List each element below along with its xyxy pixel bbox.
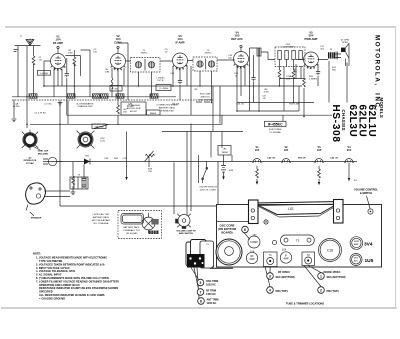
svg-text:10-365: 10-365 <box>13 106 21 108</box>
svg-text:CONNECTED WHEN: CONNECTED WHEN <box>156 105 178 107</box>
svg-text:L-28560: L-28560 <box>40 73 49 75</box>
svg-text:7: 7 <box>200 290 202 294</box>
svg-text:PRI (TOP): PRI (TOP) <box>327 289 339 293</box>
svg-text:B- DESIGNATES: B- DESIGNATES <box>77 103 94 106</box>
svg-text:4.7M: 4.7M <box>264 92 269 94</box>
svg-text:R16 1K: R16 1K <box>298 158 306 160</box>
svg-text:ALL RESISTORS INDICATED IN OHM: ALL RESISTORS INDICATED IN OHMS K=1000 O… <box>39 293 105 297</box>
svg-text:AVC: AVC <box>354 259 359 262</box>
svg-text:C16 .05: C16 .05 <box>236 104 244 106</box>
svg-text:= CHASSIS GROUND: = CHASSIS GROUND <box>39 296 65 300</box>
svg-text:600 KC: 600 KC <box>130 111 138 113</box>
svg-text:C2 PADDER: C2 PADDER <box>127 104 140 107</box>
svg-text:5: 5 <box>200 281 202 285</box>
svg-text:R13 C30B: R13 C30B <box>200 94 211 96</box>
svg-text:INTERLOCK: INTERLOCK <box>24 160 37 162</box>
svg-text:LS1: LS1 <box>288 207 294 211</box>
svg-text:SPKR: SPKR <box>342 42 348 44</box>
svg-text:TUBE & TRIMMER LOCATIONS: TUBE & TRIMMER LOCATIONS <box>286 302 325 306</box>
svg-text:8: 8 <box>200 299 202 303</box>
svg-text:ON-OFF SWITCH: ON-OFF SWITCH <box>199 186 217 188</box>
svg-text:MODELS: MODELS <box>379 98 384 119</box>
svg-text:L2 OSC: L2 OSC <box>44 104 52 106</box>
svg-text:AC: AC <box>28 156 32 159</box>
svg-text:OPERATION AND LOWER ON AC: OPERATION AND LOWER ON AC <box>39 283 80 287</box>
svg-text:3: 3 <box>269 274 271 278</box>
svg-text:3.3M: 3.3M <box>68 53 73 55</box>
svg-text:FOR TUNED: FOR TUNED <box>269 129 282 131</box>
svg-text:C18: C18 <box>327 248 333 252</box>
svg-text:COUPLATE: COUPLATE <box>282 46 294 49</box>
svg-text:BATTERY PACK: BATTERY PACK <box>159 107 176 110</box>
svg-text:4. VOLTAGE TOLERANCE ±20%: 4. VOLTAGE TOLERANCE ±20% <box>36 269 76 273</box>
svg-text:2SA704B: 2SA704B <box>94 126 104 129</box>
svg-text:C2 4.7K R4: C2 4.7K R4 <box>34 113 46 115</box>
svg-text:CHASSIS GND: CHASSIS GND <box>77 105 92 108</box>
svg-text:HS-308: HS-308 <box>330 105 341 143</box>
svg-text:& SWITCH: & SWITCH <box>360 192 373 195</box>
svg-text:PRI (TOP): PRI (TOP) <box>276 289 288 293</box>
svg-text:5. AC SIGNAL INPUT: 5. AC SIGNAL INPUT <box>36 273 62 277</box>
svg-text:GRID CAP: GRID CAP <box>38 150 49 153</box>
svg-text:AND SWITCH: AND SWITCH <box>179 232 193 235</box>
svg-text:BOARD): BOARD) <box>221 231 232 235</box>
svg-text:7. LOWER FILAMENT VOLTAGE READ: 7. LOWER FILAMENT VOLTAGE READING OBTAIN… <box>36 279 120 283</box>
svg-text:AMP: AMP <box>250 258 255 261</box>
svg-text:6. (*) MEASUREMENTS MADE WITH: 6. (*) MEASUREMENTS MADE WITH VOLUME FUL… <box>36 276 109 280</box>
svg-text:1MEG 40: 1MEG 40 <box>200 97 210 99</box>
svg-text:2: 2 <box>320 288 322 292</box>
svg-text:SEC (BOTTOM): SEC (BOTTOM) <box>276 275 295 279</box>
svg-text:SPEAKER: SPEAKER <box>31 217 42 220</box>
svg-text:3. INPUT VOLTAGE 117VAC: 3. INPUT VOLTAGE 117VAC <box>36 266 70 270</box>
svg-text:T3: T3 <box>296 239 300 243</box>
svg-text:COMP: COMP <box>250 240 258 244</box>
svg-text:CR2: CR2 <box>85 155 90 157</box>
svg-text:4: 4 <box>269 288 271 292</box>
svg-text:MOTOROLA PART: MOTOROLA PART <box>92 219 111 222</box>
svg-text:BATTERY PACK: BATTERY PACK <box>93 216 110 219</box>
svg-text:MOLDING: MOLDING <box>38 153 49 155</box>
svg-text:1.5MEG: 1.5MEG <box>309 79 317 81</box>
svg-text:6: 6 <box>244 228 246 232</box>
svg-text:OSC: OSC <box>114 89 119 91</box>
svg-text:456KC: 456KC <box>141 53 148 55</box>
svg-text:1: 1 <box>320 274 322 278</box>
svg-text:BATTERY PACK: BATTERY PACK <box>123 226 140 229</box>
svg-text:3V4: 3V4 <box>364 241 373 247</box>
svg-text:RF 455KC: RF 455KC <box>278 270 290 274</box>
svg-text:AMP: AMP <box>354 243 359 246</box>
svg-text:10M: 10M <box>105 72 109 74</box>
svg-text:1ST IF: 1ST IF <box>157 80 164 82</box>
svg-text:117VAC: 117VAC <box>26 162 34 165</box>
svg-text:VOLUME CONT R7: VOLUME CONT R7 <box>176 231 196 233</box>
svg-text:NOTE:: NOTE: <box>33 252 41 256</box>
svg-text:45 OHM: 45 OHM <box>341 40 349 42</box>
svg-text:TERM: TERM <box>221 152 227 154</box>
svg-text:15K: 15K <box>123 112 127 114</box>
svg-text:DET: DET <box>354 258 359 260</box>
svg-text:C42 .05: C42 .05 <box>330 157 338 160</box>
svg-text:455KC: 455KC <box>205 53 212 55</box>
svg-text:1400 KC: 1400 KC <box>207 302 217 305</box>
svg-text:1U4: 1U4 <box>282 250 287 252</box>
svg-text:1400 KC: 1400 KC <box>206 293 216 296</box>
svg-text:R10 3.3M: R10 3.3M <box>289 104 299 106</box>
svg-text:1. VOLTAGE MEASUREMENTS MADE W: 1. VOLTAGE MEASUREMENTS MADE WITH ELECTR… <box>36 256 107 260</box>
svg-text:SW1 ON R20: SW1 ON R20 <box>198 100 212 102</box>
svg-text:TL-455A: TL-455A <box>159 87 168 90</box>
svg-text:1U5: 1U5 <box>365 258 374 264</box>
svg-text:C40 .05: C40 .05 <box>267 157 275 160</box>
svg-text:48A10: 48A10 <box>150 112 157 115</box>
svg-text:2. VOLTAGES TAKEN BETWEEN POIN: 2. VOLTAGES TAKEN BETWEEN POINT INDICATE… <box>36 262 105 266</box>
svg-text:OSC: OSC <box>100 138 105 140</box>
svg-text:SPECIFIED: SPECIFIED <box>39 290 53 294</box>
svg-text:LISTED AS "UM": LISTED AS "UM" <box>93 213 110 216</box>
svg-text:1M: 1M <box>293 72 296 74</box>
svg-text:AMP: AMP <box>284 258 289 261</box>
svg-text:OR EQUAL: OR EQUAL <box>126 232 138 235</box>
svg-text:C1A: C1A <box>14 103 19 106</box>
svg-text:1620 KC: 1620 KC <box>206 283 216 286</box>
svg-text:I.F. SIGNAL: I.F. SIGNAL <box>269 131 281 134</box>
svg-text:COIL: COIL <box>100 141 106 143</box>
svg-text:RESISTANCE INDICATED IN AMP UN: RESISTANCE INDICATED IN AMP UNLESS OTHER… <box>39 286 118 290</box>
svg-text:IS REMOVED: IS REMOVED <box>160 111 174 113</box>
svg-text:TYPE VOLTMETER: TYPE VOLTMETER <box>39 259 62 263</box>
svg-text:DIODE 455KC: DIODE 455KC <box>323 270 340 274</box>
svg-text:(ON VOL CONT): (ON VOL CONT) <box>200 189 217 191</box>
svg-text:C24A: C24A <box>286 75 292 78</box>
svg-text:IF-455KC: IF-455KC <box>268 123 283 127</box>
svg-text:T 455KC: T 455KC <box>156 78 165 80</box>
svg-text:NO. 1X48465A: NO. 1X48465A <box>94 222 109 225</box>
svg-text:EVEREADY 753: EVEREADY 753 <box>123 229 140 232</box>
svg-text:PWR: PWR <box>354 241 360 243</box>
svg-text:SEC (BOTTOM): SEC (BOTTOM) <box>327 275 346 279</box>
svg-text:ADJUST FOR: ADJUST FOR <box>127 107 141 110</box>
svg-text:62L3U: 62L3U <box>347 105 358 138</box>
